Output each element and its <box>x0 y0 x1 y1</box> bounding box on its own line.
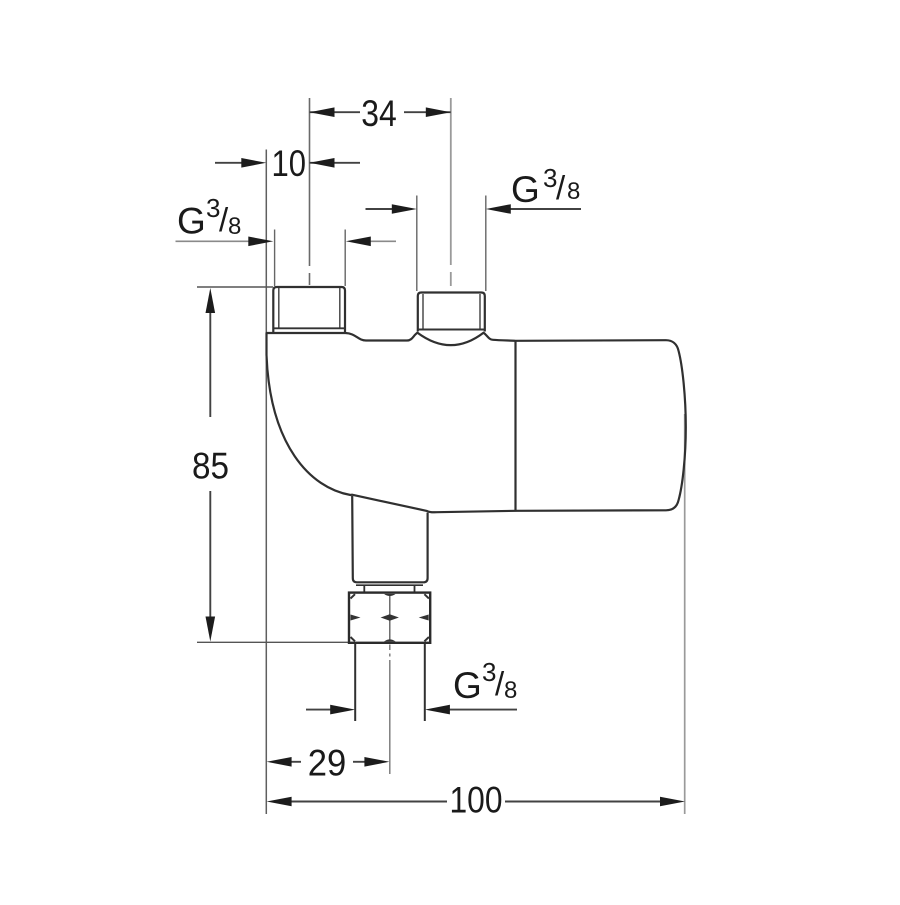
svg-text:8: 8 <box>228 213 241 240</box>
svg-text:8: 8 <box>567 178 580 205</box>
label G3/8 inlet 2 <box>511 163 580 210</box>
fitting 1 thread relief <box>278 288 280 328</box>
svg-text:G: G <box>453 665 482 706</box>
fitting 2 thread relief <box>422 294 424 330</box>
svg-text:G: G <box>177 201 206 242</box>
centerline inlet 1 <box>309 98 311 285</box>
centerline inlet 2 <box>450 98 452 286</box>
outlet pipe upper <box>352 496 427 582</box>
dimension 10 <box>215 162 360 164</box>
extension line fitting2 left <box>416 196 418 292</box>
leader G3/8 inlet1 right <box>369 240 396 242</box>
leader G3/8 inlet2 right <box>508 208 581 210</box>
lower pipe right wall <box>424 644 426 722</box>
label G3/8 inlet 1 <box>177 193 241 242</box>
nut top notch <box>384 594 396 596</box>
svg-text:10: 10 <box>271 143 306 184</box>
svg-text:34: 34 <box>361 93 397 134</box>
svg-text:/: / <box>556 169 566 206</box>
extension line 85 bottom <box>197 641 349 643</box>
nut facet line <box>389 594 391 642</box>
extension line 85 top <box>197 286 273 288</box>
svg-text:G: G <box>511 169 540 210</box>
neck left <box>363 585 365 592</box>
nut bottom notch <box>384 639 396 641</box>
svg-text:29: 29 <box>308 743 347 784</box>
extension line right reference (100) <box>684 414 686 814</box>
extension line fitting2 right <box>485 196 487 292</box>
extension line fitting1 right <box>344 230 346 287</box>
leader G3/8 outlet right <box>448 709 517 711</box>
outlet pipe lower rim <box>356 584 423 586</box>
body main outline <box>267 333 686 513</box>
fitting 2 outer <box>418 293 485 332</box>
neck right <box>414 585 416 592</box>
hex nut outline <box>349 593 430 643</box>
svg-text:8: 8 <box>504 677 517 704</box>
label G3/8 outlet <box>453 657 517 706</box>
nut chamfer left <box>351 615 361 621</box>
svg-text:100: 100 <box>450 780 503 821</box>
nut corner chamfer ticks <box>351 594 429 641</box>
leader G3/8 outlet left <box>306 709 332 711</box>
nut chamfer right <box>419 615 429 621</box>
svg-text:85: 85 <box>192 446 229 487</box>
outlet centerline <box>389 645 391 775</box>
dimension 29 <box>291 761 366 763</box>
leader G3/8 inlet1 left <box>176 240 251 242</box>
lower pipe left wall <box>354 644 356 722</box>
dimension 85 <box>209 311 211 618</box>
extension line fitting1 left <box>274 230 276 287</box>
nut chamfer diamond center <box>381 614 399 621</box>
dimension 100 <box>291 801 660 803</box>
dimension 34 <box>310 111 451 113</box>
extension line left reference plane <box>265 150 267 815</box>
cartridge separator line <box>514 341 516 511</box>
leader G3/8 inlet2 left <box>366 208 395 210</box>
fitting 1 outer <box>273 287 345 333</box>
